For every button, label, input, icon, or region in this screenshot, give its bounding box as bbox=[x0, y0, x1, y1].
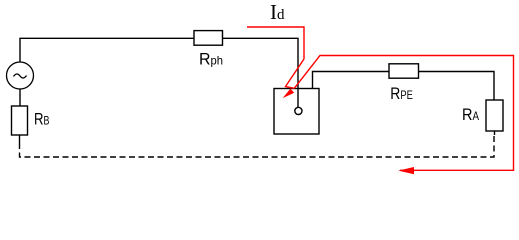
wire source bottom to RB bbox=[19, 89, 21, 106]
resistor RPE bbox=[389, 64, 419, 78]
wire RPE to RA bbox=[419, 72, 495, 101]
terminal node bbox=[295, 107, 302, 114]
red fault current line Id bbox=[247, 27, 304, 59]
svg-text:RPE: RPE bbox=[390, 84, 413, 103]
svg-text:Rph: Rph bbox=[199, 49, 223, 68]
AC source U1 bbox=[7, 62, 34, 89]
resistor RA bbox=[486, 100, 503, 131]
AC source tilde bbox=[14, 74, 27, 78]
wire source top to Rph bbox=[20, 38, 194, 62]
red bolt arrowhead bbox=[283, 89, 295, 99]
red PE return path bbox=[294, 56, 513, 171]
resistor RB bbox=[12, 106, 28, 135]
svg-text:RB: RB bbox=[34, 109, 50, 128]
red lightning bolt into box bbox=[286, 59, 305, 88]
wire Rph to box terminal bbox=[223, 38, 299, 107]
resistor Rph bbox=[194, 31, 223, 46]
svg-text:RA: RA bbox=[462, 105, 479, 124]
dashed earth return wire bbox=[20, 134, 495, 157]
wire RB bottom bbox=[19, 135, 21, 143]
appliance box bbox=[274, 89, 319, 135]
svg-text:Id: Id bbox=[270, 0, 285, 24]
wire RA bottom bbox=[494, 131, 496, 135]
wire box to RPE bbox=[313, 72, 390, 89]
red return arrowhead bbox=[398, 167, 414, 174]
